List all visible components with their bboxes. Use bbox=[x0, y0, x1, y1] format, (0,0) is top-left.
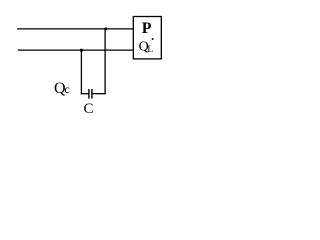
wire capacitor bottom left segment bbox=[81, 93, 89, 95]
capacitor C plates bbox=[89, 89, 92, 99]
wire vertical from top wire to capacitor bbox=[104, 29, 106, 94]
svg-text:P: P bbox=[142, 20, 152, 37]
wire bottom horizontal bbox=[18, 49, 134, 51]
wire capacitor bottom right segment bbox=[92, 93, 106, 95]
dot over QL bbox=[152, 38, 154, 40]
svg-text:QL: QL bbox=[139, 39, 154, 55]
wire vertical from bottom wire to capacitor bbox=[80, 50, 82, 94]
svg-text:Qc: Qc bbox=[54, 80, 70, 97]
block P / QL bbox=[133, 17, 161, 59]
svg-text:C: C bbox=[84, 101, 94, 117]
node junction on bottom wire bbox=[80, 49, 83, 52]
node junction on top wire bbox=[104, 28, 107, 31]
wire top horizontal bbox=[17, 28, 134, 30]
